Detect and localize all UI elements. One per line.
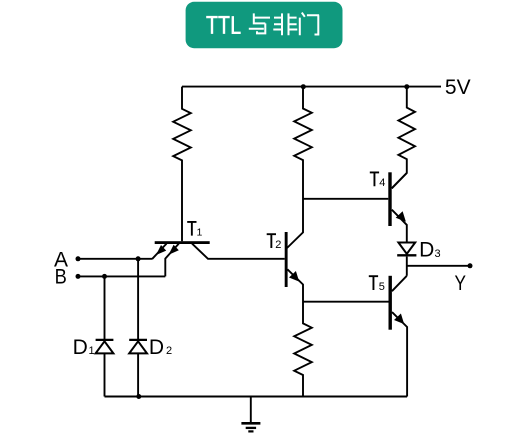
svg-text:D: D xyxy=(149,336,164,359)
svg-text:1: 1 xyxy=(197,227,203,239)
svg-text:2: 2 xyxy=(275,239,281,251)
svg-text:Y: Y xyxy=(455,272,467,295)
svg-text:B: B xyxy=(55,265,67,288)
svg-text:3: 3 xyxy=(435,248,441,260)
svg-text:5: 5 xyxy=(379,281,385,293)
svg-text:2: 2 xyxy=(166,345,172,357)
svg-text:1: 1 xyxy=(89,345,95,357)
svg-text:D: D xyxy=(73,336,88,359)
svg-text:5V: 5V xyxy=(445,76,471,99)
svg-text:4: 4 xyxy=(379,177,385,189)
svg-text:D: D xyxy=(419,239,434,262)
